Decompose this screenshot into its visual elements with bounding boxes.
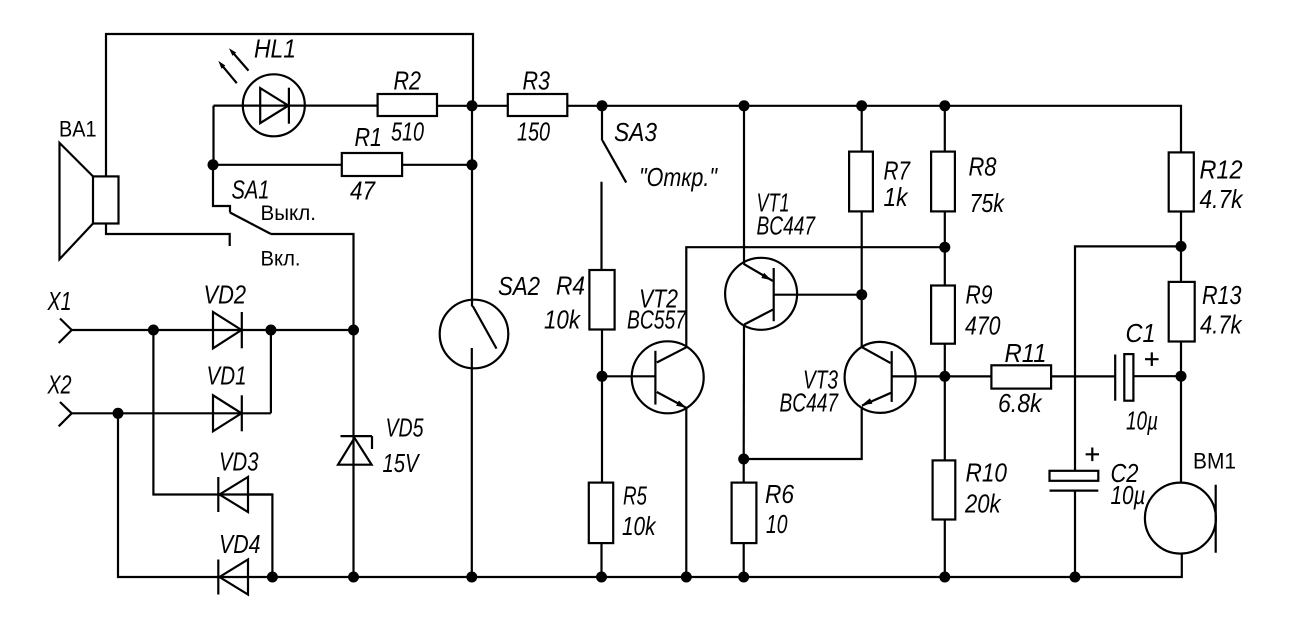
junction dot: R5 rail [596,572,607,583]
wire VT1 base to R7 column [774,294,862,296]
wire SA1 output to VD5 column [271,234,354,577]
resistor R2 [378,94,437,116]
switch SA3 arm [603,141,627,183]
resistor R12 [1169,152,1194,211]
svg-text:VD4: VD4 [219,529,261,559]
svg-text:4.7k: 4.7k [1200,310,1243,340]
wire base node down to R5 [601,376,603,482]
resistor R9 [931,286,955,344]
junction dot: X1 branch [148,325,159,336]
svg-text:47: 47 [350,176,376,206]
wire R8 bottom to R9 [944,211,946,285]
wire R8 top from rail [944,106,946,152]
diode VD2 [213,312,242,348]
wire R7 top from rail [861,106,863,152]
svg-text:BC447: BC447 [757,211,817,241]
wire R1 left from node [213,164,342,166]
resistor R1 [342,153,402,176]
diode VD3 [218,477,248,512]
wire R10 bottom to rail [944,520,946,578]
wire R6 node to VT3 emitter column [744,407,862,460]
svg-text:BM1: BM1 [1193,449,1236,474]
vertical wire R2/R3 node down through R1 node to SA2 [471,106,473,307]
speaker BA1 [60,143,119,259]
svg-text:1k: 1k [884,182,910,212]
wire X2 row [72,412,242,414]
wire X1 node down to VD3 row [153,330,272,495]
junction dot: VT1 emitter rail [739,100,750,111]
capacitor C2 [1050,471,1099,491]
wire X1 row [72,329,242,331]
svg-text:Выкл.: Выкл. [261,201,317,225]
wire R4 bottom to base node [601,330,603,377]
junction dot: R6 rail [738,572,749,583]
diode VD1 [213,395,242,431]
wire SA3 to R4 [600,182,602,270]
svg-text:6.8k: 6.8k [998,388,1043,418]
svg-text:BC557: BC557 [627,305,687,335]
wire speaker bottom to SA1 contact stub [106,224,230,247]
resistor R8 [931,152,955,212]
connector X2 [59,402,72,426]
junction dot: R7 rail [856,100,867,111]
resistor R6 [732,483,757,543]
svg-text:10µ: 10µ [1126,406,1158,436]
svg-text:SA2: SA2 [498,271,540,301]
microphone BM1 [1145,483,1216,554]
svg-text:VD1: VD1 [207,361,247,391]
transistor VT2 [632,341,704,413]
wire bottom rail [248,554,1182,577]
wire VD3 anode to VD4 node [248,495,272,578]
svg-text:HL1: HL1 [254,34,296,64]
wire LED row horizontal [214,104,378,106]
svg-text:20k: 20k [964,489,1002,519]
switch SA1 pole [213,165,230,213]
junction dot: R12/R13/C2 tap [1176,241,1187,252]
wire C2 bottom to rail [1074,491,1076,577]
wire VD1 cathode to link [242,412,271,414]
svg-text:R5: R5 [623,481,647,511]
wire R6 bottom to rail [743,543,745,577]
svg-text:"Откр.": "Откр." [639,162,718,192]
transistor VT1 [725,258,797,330]
junction dot: R4/R5/VT2 base node [597,371,608,382]
wire VT3 base node to R11 [945,375,992,377]
switch SA2 [440,300,509,369]
svg-text:VD2: VD2 [204,280,247,310]
svg-text:R12: R12 [1200,155,1243,185]
svg-text:R2: R2 [394,66,422,96]
junction dot: R1 left node [208,159,219,170]
wire VT2 collector up and right to R8 column [686,247,945,347]
wire C1 to R12/R13 node [1133,375,1181,377]
junction dot: VT2 collector/R8 node [939,242,950,253]
wire R5 bottom to rail [600,543,602,577]
wire top supply rail [602,106,1181,153]
svg-text:150: 150 [517,117,550,147]
svg-text:75k: 75k [970,188,1006,218]
resistor R13 [1169,282,1195,342]
resistor R10 [933,460,956,519]
svg-text:R7: R7 [884,156,912,186]
svg-text:R1: R1 [355,122,383,152]
junction dot: VD2 cathode node [265,325,276,336]
wire LED corner down to R1 node [212,106,214,165]
junction dot: VD5 column top [348,325,359,336]
junction dot: VT3 base/R9/R10 node [939,371,950,382]
junction dot: R1 right node [467,159,478,170]
zener diode VD5 [338,436,372,465]
resistor R3 [473,94,602,116]
switch SA1 arm [230,213,271,235]
resistor R5 [589,483,613,543]
wire R12 bottom through node to R13 [1180,212,1182,282]
svg-text:R6: R6 [765,479,794,509]
wire VD2/VD1 link vertical [270,330,272,413]
junction dot: R8 rail [939,100,950,111]
wire R11 to C1 [1051,375,1115,377]
svg-text:VD5: VD5 [386,413,424,443]
wire base node to VT2 [602,375,655,377]
wire R12/R13 tap to C2 column [1075,246,1181,470]
wire R6 node down into R6 [743,459,745,483]
wire R1 right to node [402,164,472,166]
plus sign C2 [1086,448,1099,462]
svg-text:4.7k: 4.7k [1200,184,1245,214]
svg-text:470: 470 [965,311,1001,341]
junction dot: SA2 rail [466,572,477,583]
wire top-left loop from speaker to R2/R3 node [106,34,473,176]
svg-text:Вкл.: Вкл. [261,247,301,271]
wire VT3 base to R9/R10 node [892,375,945,377]
svg-text:BC447: BC447 [780,388,840,418]
wire R7 column down to VT3 collector [861,211,863,347]
svg-text:VD3: VD3 [219,447,259,477]
junction dot: R2/R3 node [467,100,478,111]
svg-text:R9: R9 [966,280,993,310]
svg-text:10µ: 10µ [1111,480,1146,510]
connector X1 [59,319,72,344]
resistor R7 [849,152,873,212]
wire VT2 emitter down to rail [685,408,687,577]
junction dot: VD3/VD4 rail node [267,572,278,583]
junction dot: SA3 tap [597,100,608,111]
svg-text:R10: R10 [966,458,1008,488]
wire SA2 bottom to rail [471,348,473,577]
junction dot: C2 rail [1070,572,1081,583]
svg-text:BA1: BA1 [59,117,97,142]
svg-text:C1: C1 [1126,318,1156,348]
svg-text:10k: 10k [544,305,582,335]
transistor VT3 [845,342,916,413]
svg-text:R8: R8 [969,152,997,182]
svg-text:R3: R3 [523,66,551,96]
wire R2 right to node [437,105,473,107]
junction dot: VT1 collector/R6/VT3 emitter node [738,454,749,465]
wire VT1 emitter up to rail [743,106,745,264]
plus sign C1 [1145,352,1159,366]
svg-text:10: 10 [766,509,788,539]
wire R13 bottom to C1 node [1180,342,1182,377]
junction dot: VD5 column rail [348,572,359,583]
wire VT1 collector down to R6 node [743,325,745,460]
resistor R11 [991,365,1051,388]
svg-text:X1: X1 [47,286,72,316]
svg-text:SA3: SA3 [614,117,657,147]
wire X2 node down to bottom rail [118,413,248,577]
svg-text:R13: R13 [1202,280,1242,310]
diode VD4 [218,560,248,595]
svg-text:X2: X2 [47,370,72,400]
svg-text:SA1: SA1 [232,175,270,205]
svg-text:R11: R11 [1005,338,1047,368]
junction dot: VT2 emitter rail [681,572,692,583]
junction dot: R10 rail [939,572,950,583]
wire VD2 cathode to VD5 column [242,329,354,331]
switch SA3 stub [601,106,603,141]
svg-text:10k: 10k [622,511,657,541]
wire C1 node down to BM1 [1180,376,1182,482]
resistor R4 [589,270,614,330]
svg-text:510: 510 [391,117,424,147]
svg-text:R4: R4 [556,271,585,301]
LED HL1 [218,48,304,136]
wire R9 bottom to R10 [944,344,946,461]
capacitor C1 [1115,354,1133,401]
junction dot: X2 branch [113,408,124,419]
junction dot: VT1 base/R7 node [856,289,867,300]
svg-text:15V: 15V [383,448,421,478]
junction dot: C1/R13/BM1 node [1176,371,1187,382]
